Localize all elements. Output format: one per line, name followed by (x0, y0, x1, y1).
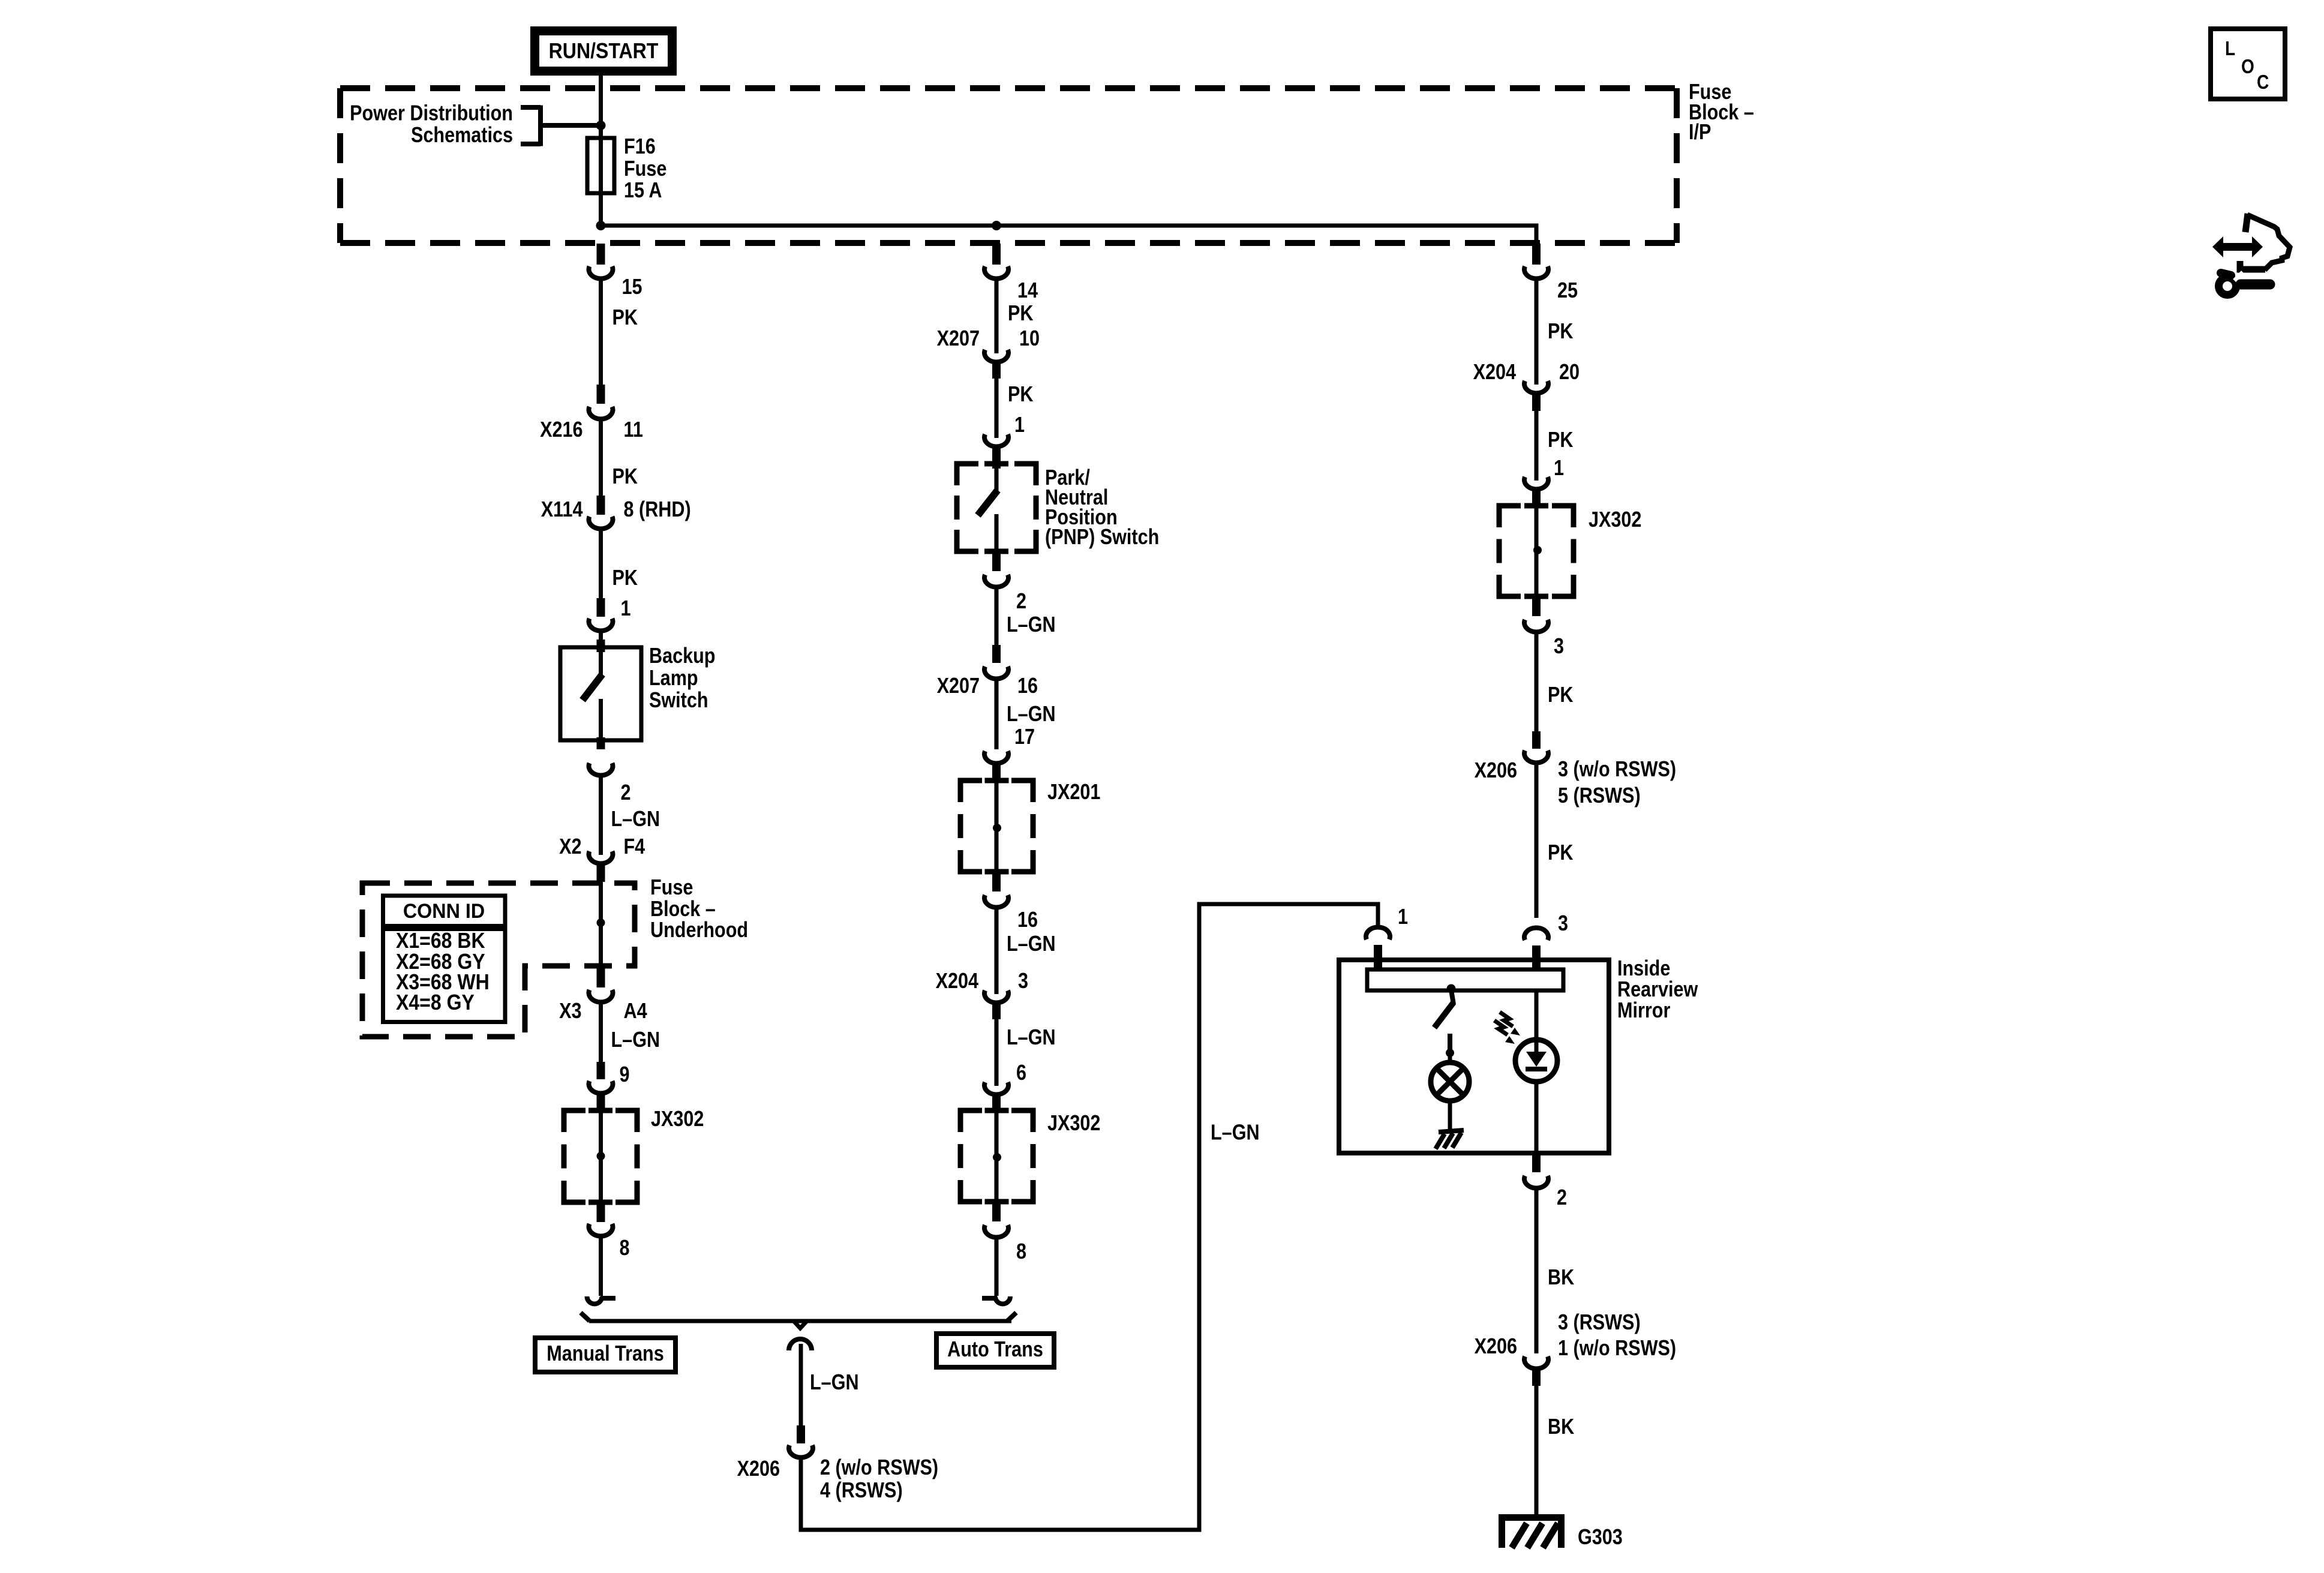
svg-text:4 (RSWS): 4 (RSWS) (820, 1479, 903, 1503)
node junction dot JX302 middle (993, 1153, 1001, 1161)
connector pin 1 socket JX302 right (1524, 477, 1548, 489)
wire L-GN center drop (799, 1344, 803, 1425)
svg-text:F4: F4 (624, 835, 645, 859)
svg-text:1: 1 (1398, 905, 1408, 929)
mirror map lamp switch pivot (1451, 990, 1454, 1004)
svg-text:8 (RHD): 8 (RHD) (624, 498, 691, 522)
svg-text:A4: A4 (624, 999, 647, 1023)
stub into JX302 right (1532, 487, 1541, 508)
wire to map lamp bulb (1448, 1053, 1452, 1063)
connector X204 pin 20 socket (1524, 381, 1548, 393)
mirror map lamp switch lower contact (1448, 1034, 1452, 1050)
node junction dot JX302 left (597, 1152, 605, 1160)
svg-text:8: 8 (620, 1236, 630, 1260)
photocell sensor circle (1515, 1040, 1557, 1082)
svg-text:14: 14 (1017, 279, 1038, 303)
svg-text:L–GN: L–GN (1211, 1121, 1260, 1145)
connector pin 2 socket below PNP (984, 575, 1008, 587)
service icon vehicle outline (2245, 214, 2248, 232)
RUN/START power feed box (535, 31, 672, 71)
node junction dot JX302 right (1533, 546, 1542, 554)
wire into backup lamp switch (599, 632, 603, 641)
svg-text:X206: X206 (1475, 759, 1517, 783)
svg-text:Schematics: Schematics (411, 124, 513, 148)
connector pin 6 socket (984, 1082, 1008, 1094)
svg-text:2: 2 (1016, 590, 1026, 614)
bus wire from fuse to right column (601, 224, 1537, 228)
svg-text:X207: X207 (937, 327, 980, 351)
CONN ID header separator (383, 924, 506, 931)
svg-text:JX302: JX302 (1047, 1112, 1100, 1136)
wire PK left column seg2 (599, 421, 603, 496)
svg-text:3: 3 (1554, 635, 1564, 659)
connector X3 pin A4 stub (597, 968, 605, 987)
node junction dot JX201 (993, 824, 1001, 832)
wire through underhood fuse block (599, 882, 603, 968)
connector pin 3 socket right (1524, 620, 1548, 632)
svg-text:(PNP) Switch: (PNP) Switch (1045, 526, 1159, 550)
wire bulb to chassis ground (1448, 1101, 1452, 1133)
svg-text:1: 1 (1554, 457, 1564, 481)
svg-text:2: 2 (1557, 1186, 1567, 1210)
connector X216 pin 11 stub (597, 385, 605, 404)
stub into JX201 (992, 761, 1001, 783)
node junction dot bus left (596, 221, 606, 230)
svg-text:X206: X206 (737, 1457, 780, 1481)
svg-text:L–GN: L–GN (1007, 1026, 1056, 1050)
svg-text:15: 15 (622, 275, 642, 299)
svg-text:RUN/START: RUN/START (549, 39, 659, 63)
svg-text:PK: PK (612, 465, 638, 489)
connector pin 16 stub below JX201 (992, 872, 1001, 891)
svg-text:L–GN: L–GN (611, 807, 660, 831)
wire PK right seg4 (1535, 764, 1539, 918)
svg-text:25: 25 (1557, 279, 1578, 303)
connector pin 8 stub JX302 middle (992, 1202, 1001, 1221)
connector X207 pin 16 stub (992, 645, 1001, 663)
photocell diode triangle (1526, 1052, 1547, 1067)
svg-text:I/P: I/P (1689, 121, 1711, 145)
connector X2 stub into underhood fuse block (597, 861, 605, 882)
inside rearview mirror box (1339, 960, 1609, 1153)
stub into PNP switch box (992, 445, 1001, 469)
connector X206 right socket (1524, 751, 1548, 763)
PNP switch blade (978, 490, 998, 515)
wire L-GN to JX302 left (599, 1004, 603, 1062)
connector X207 pin 16 socket (984, 667, 1008, 679)
svg-text:L: L (2225, 38, 2235, 60)
wire through JX302 middle (995, 1113, 999, 1202)
connector pin 1 socket PNP switch (984, 434, 1008, 446)
svg-text:L–GN: L–GN (1007, 703, 1056, 727)
junction block JX201 dashed box (960, 781, 1033, 872)
svg-text:Mirror: Mirror (1617, 999, 1670, 1023)
connector X204 stub below (992, 1001, 1001, 1019)
svg-text:Lamp: Lamp (649, 667, 698, 691)
auto trans option hook (982, 1296, 997, 1301)
connector X206 ground stub socket (1524, 1356, 1548, 1368)
connector X114 pin 8 socket (589, 517, 613, 529)
svg-text:1: 1 (621, 597, 631, 621)
svg-text:2: 2 (621, 781, 631, 805)
connector pin 3 stub below JX302 right (1532, 596, 1541, 616)
wire to auto trans merge (995, 1239, 999, 1296)
svg-text:PK: PK (1548, 428, 1573, 452)
map lamp bulb X filament (1436, 1068, 1463, 1095)
backup lamp switch pole wire (599, 652, 603, 675)
Manual Trans option tag box (535, 1338, 675, 1372)
svg-text:PK: PK (1008, 383, 1033, 407)
connector pin 9 stub (597, 1062, 605, 1079)
svg-text:JX302: JX302 (1589, 508, 1641, 532)
wire BK seg2 to ground (1535, 1386, 1539, 1516)
svg-text:X2: X2 (559, 835, 581, 859)
wire L-GN middle seg3 (995, 909, 999, 994)
junction block JX302 left dashed box (564, 1110, 637, 1202)
svg-text:11: 11 (624, 418, 643, 442)
mirror internal chassis ground (1436, 1130, 1464, 1149)
wire L-GN run to mirror pin 1 (801, 904, 1378, 1530)
svg-text:Rearview: Rearview (1617, 978, 1698, 1002)
svg-text:C: C (2257, 71, 2269, 94)
reference bracket to wire (521, 106, 599, 146)
wire L-GN to X2 (599, 777, 603, 855)
svg-text:L–GN: L–GN (1007, 613, 1056, 637)
bus merge V notch center (794, 1321, 807, 1328)
connector pin 1 socket (589, 619, 613, 631)
mirror pin 2 stub (1532, 1153, 1541, 1172)
svg-text:17: 17 (1014, 725, 1035, 749)
PNP switch bottom stub (992, 551, 1001, 571)
connector pin 14 socket (984, 266, 1008, 278)
connector X2 pin F4 socket (589, 851, 613, 863)
svg-text:1: 1 (1014, 413, 1025, 437)
map lamp bulb circle (1431, 1062, 1469, 1101)
svg-text:10: 10 (1019, 327, 1040, 351)
svg-text:Backup: Backup (649, 644, 715, 668)
mirror lamp terminal dot (1446, 1049, 1454, 1057)
svg-text:PK: PK (612, 306, 638, 330)
connector pin 8 socket left (589, 1224, 613, 1236)
svg-text:G303: G303 (1578, 1526, 1623, 1550)
bus merge tick right (1007, 1313, 1016, 1321)
connector X206 center stub (797, 1425, 805, 1443)
svg-text:BK: BK (1548, 1266, 1574, 1290)
connector X204 pin 3 socket (984, 990, 1008, 1002)
manual trans option hook (600, 1296, 615, 1301)
svg-text:PK: PK (1548, 841, 1573, 865)
svg-text:BK: BK (1548, 1415, 1574, 1439)
svg-text:9: 9 (620, 1063, 630, 1087)
connector pin 15 stub (left column exits fuse block) (597, 244, 605, 265)
wire PK left column seg3 (599, 530, 603, 598)
svg-text:5 (RSWS): 5 (RSWS) (1558, 784, 1641, 808)
svg-text:X4=8 GY: X4=8 GY (396, 990, 475, 1014)
svg-text:PK: PK (612, 566, 638, 590)
backup lamp switch bottom terminal stub (597, 737, 605, 749)
svg-text:Switch: Switch (649, 689, 708, 713)
svg-text:L–GN: L–GN (1007, 932, 1056, 956)
svg-text:3 (w/o RSWS): 3 (w/o RSWS) (1558, 758, 1676, 782)
svg-text:Power Distribution: Power Distribution (350, 101, 513, 125)
svg-text:L–GN: L–GN (810, 1371, 859, 1395)
svg-text:X3: X3 (559, 999, 581, 1023)
connector pin 9 socket (589, 1081, 613, 1093)
wire L-GN middle seg4 (995, 1019, 999, 1086)
svg-text:PK: PK (1548, 320, 1573, 344)
wire bus corner down right column (1535, 224, 1539, 247)
svg-text:15 A: 15 A (624, 179, 662, 203)
svg-text:F16: F16 (624, 135, 656, 159)
node junction dot at bracket tap (596, 121, 606, 130)
connector pin 25 stub (right column exits fuse block) (1532, 244, 1541, 265)
wire through JX302 left (599, 1112, 603, 1202)
connector X206 center socket (789, 1445, 813, 1457)
connector X3 pin A4 socket (589, 990, 613, 1002)
svg-text:Block –: Block – (650, 897, 716, 921)
bus merge tick left (581, 1313, 590, 1321)
backup lamp switch box (560, 647, 641, 740)
svg-text:X204: X204 (936, 969, 979, 993)
svg-text:JX302: JX302 (651, 1107, 704, 1131)
ground G303 symbol (1499, 1514, 1565, 1521)
junction block JX302 middle dashed box (960, 1110, 1033, 1202)
svg-text:Underhood: Underhood (650, 918, 748, 942)
wire to manual trans merge (599, 1238, 603, 1296)
svg-text:3: 3 (1558, 912, 1568, 936)
wire BK seg1 (1535, 1190, 1539, 1353)
stub into JX302 middle (992, 1092, 1001, 1113)
connector pin 2 socket below switch (589, 763, 613, 775)
wire PK middle seg1 (995, 280, 999, 353)
svg-text:Fuse: Fuse (624, 157, 666, 181)
node junction dot bus middle (992, 221, 1001, 230)
connector X206 right stub (1532, 731, 1541, 749)
svg-text:L–GN: L–GN (611, 1028, 660, 1052)
connector X114 pin 8 stub (597, 496, 605, 515)
svg-text:20: 20 (1559, 361, 1580, 385)
wire PK right seg1 (1535, 280, 1539, 385)
mirror pin 1 dome connector (1366, 927, 1390, 939)
connector pin 17 socket (984, 751, 1008, 763)
svg-text:PK: PK (1008, 302, 1033, 326)
svg-text:Fuse: Fuse (650, 876, 693, 900)
mirror map lamp switch blade (1434, 1002, 1454, 1028)
svg-text:CONN ID: CONN ID (403, 900, 485, 923)
LOC legend box (2211, 29, 2285, 99)
svg-text:Auto Trans: Auto Trans (947, 1338, 1043, 1362)
backup lamp switch lower contact wire (599, 699, 603, 737)
svg-text:X114: X114 (541, 498, 583, 522)
wire PK right seg2 (1535, 411, 1539, 481)
svg-text:1 (w/o RSWS): 1 (w/o RSWS) (1558, 1337, 1676, 1361)
node junction dot on bus bar (1447, 984, 1456, 993)
connector pin 25 socket (1524, 266, 1548, 278)
stub into JX302 left (597, 1091, 605, 1112)
svg-text:X207: X207 (937, 674, 980, 698)
connector X206 ground stub below (1532, 1367, 1541, 1386)
svg-text:16: 16 (1017, 674, 1038, 698)
connector pin 2 socket below mirror (1524, 1176, 1548, 1188)
backup lamp switch blade (582, 674, 602, 700)
svg-text:8: 8 (1016, 1240, 1026, 1264)
wire PK left column seg1 (599, 280, 603, 385)
wire through JX201 (995, 783, 999, 872)
wire through fuse F16 (599, 139, 603, 226)
photon arrow 2 (1494, 1020, 1508, 1035)
photon arrow 1 (1500, 1012, 1513, 1026)
Fuse Block - Underhood dashed outline (362, 883, 635, 1037)
service icon double arrow (2212, 236, 2263, 257)
mirror pin 3 dome connector (1524, 928, 1548, 940)
wire L-GN middle seg2 (995, 680, 999, 749)
connector X204 right stub below (1532, 391, 1541, 411)
mirror pin 1 stub (1374, 945, 1382, 974)
Fuse Block - I/P dashed outline (340, 88, 1677, 243)
junction block JX302 right dashed box (1499, 506, 1574, 596)
wire L-GN middle seg1 (995, 589, 999, 645)
wire PK right seg3 (1535, 634, 1539, 731)
photocell cathode bar (1526, 1067, 1547, 1071)
CONN ID table box (383, 896, 506, 1022)
svg-text:Inside: Inside (1617, 957, 1670, 981)
svg-text:3 (RSWS): 3 (RSWS) (1558, 1311, 1641, 1335)
connector pin 14 stub (middle column exits fuse block) (992, 244, 1001, 265)
connector pin 1 stub backup lamp switch (597, 598, 605, 617)
connector pin 16 socket below JX201 (984, 895, 1008, 907)
svg-text:O: O (2241, 56, 2254, 78)
svg-text:3: 3 (1018, 969, 1028, 993)
park neutral position switch dashed box (957, 464, 1036, 551)
connector X207 stub below (992, 360, 1001, 379)
PNP switch pole wire (995, 469, 999, 491)
svg-text:PK: PK (1548, 683, 1573, 707)
merged option bus wire (589, 1319, 1011, 1323)
node junction dot in underhood block (597, 918, 605, 927)
svg-text:2 (w/o RSWS): 2 (w/o RSWS) (820, 1456, 938, 1480)
svg-text:X204: X204 (1473, 361, 1517, 385)
wire RUN/START to fuse F16 (599, 76, 603, 139)
connector X207 pin 10 socket (984, 350, 1008, 362)
wire PK middle seg2 (995, 379, 999, 438)
svg-text:16: 16 (1017, 908, 1038, 932)
connector X216 pin 11 socket (589, 407, 613, 419)
mirror pin 3 stub (1532, 945, 1541, 974)
PNP switch lower contact wire (995, 514, 999, 551)
wire photocell to mirror pin 2 (1535, 1082, 1539, 1153)
backup lamp switch top terminal stub (597, 640, 605, 652)
Auto Trans option tag box (936, 1334, 1054, 1367)
svg-text:X216: X216 (540, 418, 582, 442)
service icon wrench (2219, 278, 2236, 295)
connector pin 8 stub JX302 left (597, 1202, 605, 1222)
wire bus bar to photo sensor (1535, 990, 1539, 1056)
fuse F16 body (587, 138, 614, 193)
mirror internal bus bar (1367, 969, 1563, 990)
connector pin 15 socket (589, 266, 613, 278)
connector pin 8 socket middle (984, 1225, 1008, 1237)
svg-text:JX201: JX201 (1047, 781, 1100, 804)
svg-text:Manual Trans: Manual Trans (547, 1342, 663, 1366)
wire through JX302 right (1535, 508, 1539, 596)
option merge hook center (789, 1339, 812, 1350)
svg-text:6: 6 (1016, 1061, 1026, 1085)
svg-text:X206: X206 (1475, 1335, 1517, 1359)
